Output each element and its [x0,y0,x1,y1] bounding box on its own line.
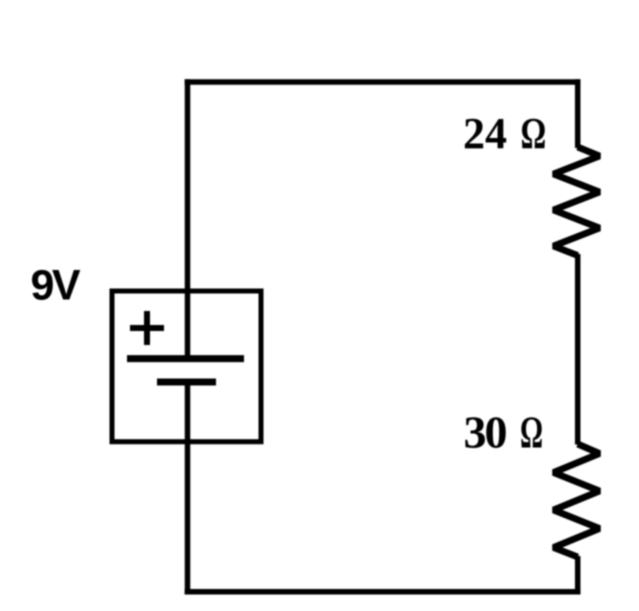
svg-text:24: 24 [463,109,507,158]
wire left lower (battery - plate to bottom rail) [185,382,191,594]
wire top [185,79,581,85]
wire bottom [185,589,581,595]
svg-text:30: 30 [464,407,508,458]
wire right lower [575,556,581,594]
battery V1 outline box [112,291,261,442]
wire right upper [575,79,581,148]
battery V1 positive plate [127,355,244,362]
resistor R1 24 ohm zigzag [554,147,600,256]
battery V1 negative plate [157,379,216,386]
wire left upper (top rail to battery + plate) [185,79,191,358]
resistor R2 30 ohm zigzag [554,444,600,557]
svg-text:Ω: Ω [521,110,547,158]
battery V1 plus sign [130,311,164,345]
svg-text:Ω: Ω [520,408,543,458]
wire right middle [575,254,581,445]
svg-text:9V: 9V [31,262,81,310]
